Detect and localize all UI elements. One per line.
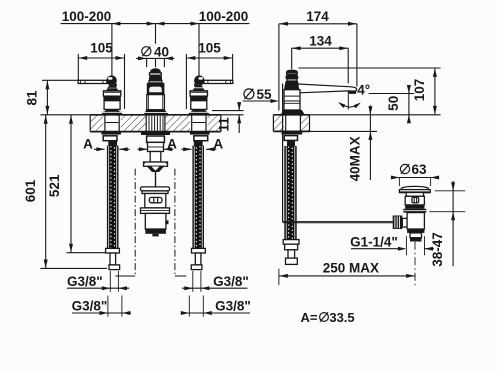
spout aerator at arm tip xyxy=(348,91,357,94)
4 degree swing arc with arrows xyxy=(340,103,360,107)
side view washer under counter xyxy=(282,132,303,135)
left flexible braided hose xyxy=(107,146,118,248)
dimension 105 (right) line and text xyxy=(186,57,232,59)
svg-text:40: 40 xyxy=(154,44,169,59)
left handle washer under counter xyxy=(101,132,121,135)
side view hose end nut xyxy=(286,258,298,264)
dimension 174 line and text xyxy=(279,23,357,25)
svg-text:40MAX: 40MAX xyxy=(348,136,363,181)
extension lines diameter 40 xyxy=(146,58,148,67)
pop-up zone dashed box right edge xyxy=(174,169,176,276)
svg-text:250 MAX: 250 MAX xyxy=(323,260,379,275)
left handle lower body xyxy=(104,101,120,110)
svg-text:174: 174 xyxy=(306,9,329,24)
spout second white ring xyxy=(149,81,162,83)
4 degree datum line xyxy=(369,93,415,95)
side view hose end tube xyxy=(288,250,295,258)
dimension 38-47 line and text xyxy=(435,190,466,192)
svg-text:11: 11 xyxy=(216,117,231,132)
label A with arrows, right handle shank xyxy=(181,148,191,150)
svg-text:G3/8": G3/8" xyxy=(215,299,251,314)
pop-up horizontal rod to drain xyxy=(283,221,393,223)
pop-up lift rod (vertical, behind faucet) xyxy=(282,84,284,223)
side view hose adapter xyxy=(287,140,295,146)
svg-text:A: A xyxy=(167,136,177,151)
drain plug cap xyxy=(401,186,428,189)
extension line counter top right view xyxy=(310,114,441,116)
spout mounting nut xyxy=(147,136,165,142)
drain centre line xyxy=(414,242,416,285)
left handle neck xyxy=(110,84,116,85)
side view locknut xyxy=(284,136,297,141)
pop-up waste lower body xyxy=(145,213,166,229)
spout washer under counter xyxy=(141,132,170,135)
spout escutcheon xyxy=(143,110,169,115)
svg-text:G1-1/4": G1-1/4" xyxy=(350,235,398,250)
pop-up waste upper body with overflow window xyxy=(145,194,166,208)
extension line at hose nut bottom (601) xyxy=(40,267,107,269)
dimension diameter 40 of spout xyxy=(136,57,174,59)
extension line left handle centre xyxy=(111,24,113,76)
svg-text:55: 55 xyxy=(256,87,272,102)
pop-up waste plug flange xyxy=(141,187,170,191)
dimension 40MAX line and text xyxy=(369,105,371,180)
extension line counter bottom right view xyxy=(310,130,378,132)
svg-text:G3/8": G3/8" xyxy=(67,274,103,289)
left handle body band xyxy=(103,96,120,101)
svg-text:A: A xyxy=(213,136,223,151)
extension line spout tip xyxy=(356,24,358,87)
extension line spout outlet xyxy=(347,48,349,83)
drain middle flange ring xyxy=(403,209,426,213)
dimension 81 line and text xyxy=(42,79,78,81)
spout upper white ring xyxy=(150,73,162,75)
right handle washer under counter xyxy=(190,132,210,135)
right handle upper body xyxy=(190,91,207,96)
dimension 521 line and text xyxy=(70,115,72,253)
left handle locknut xyxy=(103,136,117,141)
pop-up zone box bottom connector right xyxy=(175,275,186,277)
spout outlet axis line xyxy=(347,94,349,110)
side view faucet escutcheon xyxy=(281,110,305,115)
dimension 107 line and text xyxy=(434,68,436,115)
svg-text:81: 81 xyxy=(24,90,39,106)
drain lower dark band xyxy=(407,229,424,233)
drain knurled adjusting knob xyxy=(393,216,403,230)
drain knob connector xyxy=(402,218,407,227)
left handle hose adapter xyxy=(108,141,117,146)
drain tailpipe thread band xyxy=(410,238,422,242)
svg-text:63: 63 xyxy=(411,162,427,177)
svg-text:100-200: 100-200 xyxy=(62,9,112,24)
drain tailpipe G1-1/4 xyxy=(410,233,422,238)
countertop (front view, hatched section) xyxy=(90,115,221,132)
svg-text:105: 105 xyxy=(198,40,221,55)
side view faucet dome ring xyxy=(287,79,297,81)
extension line right handle centre xyxy=(198,24,200,76)
right hose end tube xyxy=(195,253,201,265)
svg-text:4°: 4° xyxy=(357,82,370,97)
spout tailpiece upper xyxy=(148,142,164,151)
left handle knob ball xyxy=(106,75,116,85)
right hose end fitting xyxy=(192,248,206,253)
countertop extension line to left xyxy=(40,114,90,116)
left hose end nut G3/8 xyxy=(109,265,120,270)
side view hose end fitting xyxy=(283,240,299,245)
spout threaded shank through counter xyxy=(145,115,147,132)
svg-text:A: A xyxy=(83,136,93,151)
extension line at hose fitting (521) xyxy=(67,252,106,254)
dimension diameter 63 of drain xyxy=(400,164,409,173)
drain flange xyxy=(399,190,430,193)
right handle lower body xyxy=(191,101,207,110)
pop-up zone dashed box left edge xyxy=(134,169,136,276)
dimension 100-200 (right) line and text xyxy=(156,23,250,25)
spout top knob xyxy=(150,68,161,73)
svg-text:50: 50 xyxy=(386,96,401,111)
extension line faucet back edge xyxy=(278,24,280,111)
side view faucet handle cap xyxy=(286,70,297,73)
right handle shank through counter xyxy=(205,115,207,132)
pop-up waste middle flange ring xyxy=(141,208,170,214)
left hose end tube xyxy=(110,253,116,265)
right handle escutcheon xyxy=(188,109,211,114)
side view spout arm xyxy=(298,84,357,93)
svg-text:G3/8": G3/8" xyxy=(213,274,249,289)
dimension 134 line and text xyxy=(292,47,349,49)
dimension 601 line and text xyxy=(45,115,47,269)
svg-text:134: 134 xyxy=(309,34,332,49)
extension lines 105 right xyxy=(232,54,234,80)
svg-text:33.5: 33.5 xyxy=(329,310,354,325)
pop-up rod tee fitting xyxy=(144,162,168,166)
extension line spout centre upper xyxy=(155,24,157,44)
dimension 105 (left) line and text xyxy=(78,57,124,59)
left handle shank through counter xyxy=(104,115,106,132)
side view shank through counter xyxy=(285,115,287,132)
pop-up vertical rod xyxy=(155,171,157,187)
svg-text:107: 107 xyxy=(412,79,427,102)
svg-text:601: 601 xyxy=(23,179,38,202)
extension lines 105 left xyxy=(77,54,79,80)
side view faucet flared base of handle xyxy=(284,81,300,90)
svg-text:A=: A= xyxy=(301,310,318,325)
right handle knob ball xyxy=(194,75,204,85)
extension line faucet top xyxy=(298,67,440,69)
dimension 50 line and text xyxy=(408,85,410,122)
side view faucet cap ring xyxy=(287,73,298,75)
drain body dark band xyxy=(405,205,424,209)
right handle lever xyxy=(204,80,233,83)
spout dome xyxy=(149,75,162,81)
svg-text:G3/8": G3/8" xyxy=(72,299,108,314)
drain body with overflow window xyxy=(405,196,424,205)
dimension 11 escutcheon height xyxy=(212,110,244,112)
left handle lever xyxy=(78,80,107,83)
spout tailpiece lower xyxy=(150,152,161,163)
svg-text:100-200: 100-200 xyxy=(199,9,249,24)
drain neck xyxy=(406,193,423,197)
pop-up waste bottom tab xyxy=(152,234,158,237)
svg-text:521: 521 xyxy=(47,174,62,197)
right handle body band xyxy=(190,96,207,101)
pop-up waste dark band xyxy=(145,229,166,234)
spout body xyxy=(147,95,165,110)
drain lower body xyxy=(407,213,424,229)
extension line faucet centre xyxy=(291,48,293,69)
right handle locknut xyxy=(194,136,208,141)
right flexible braided hose xyxy=(193,146,204,248)
svg-text:105: 105 xyxy=(90,40,113,55)
dimension 100-200 (left) line and text xyxy=(61,23,156,25)
side view braided hose xyxy=(285,147,296,240)
left hose end fitting xyxy=(106,248,120,253)
label diameter 55 with leader xyxy=(244,89,254,99)
right handle neck xyxy=(195,84,201,85)
left handle escutcheon xyxy=(101,109,124,114)
label A with arrows, spout shank xyxy=(137,148,147,150)
left handle upper body xyxy=(103,91,120,96)
spout arm front (dark block with arch) xyxy=(147,83,165,95)
countertop (side view, hatched section) xyxy=(273,115,309,132)
right hose end nut G3/8 xyxy=(191,265,202,270)
right handle hose adapter xyxy=(194,141,203,146)
side view faucet body xyxy=(284,90,300,110)
pop-up zone box bottom connector left xyxy=(115,275,135,277)
side view faucet handle dome xyxy=(285,74,298,79)
